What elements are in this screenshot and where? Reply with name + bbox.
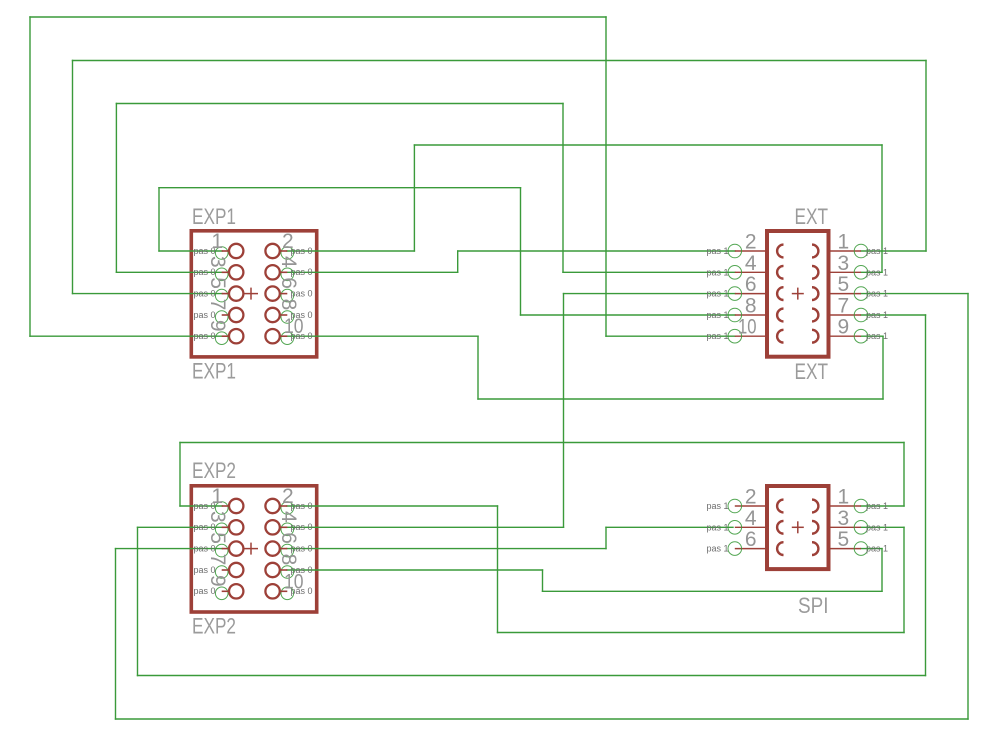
svg-text:EXT: EXT [795, 204, 829, 229]
svg-text:pas 1: pas 1 [706, 289, 728, 299]
svg-text:pas 0: pas 0 [193, 522, 215, 532]
svg-text:8: 8 [277, 299, 300, 311]
svg-text:6: 6 [745, 273, 757, 296]
svg-text:pas 0: pas 0 [291, 246, 313, 256]
svg-text:1: 1 [211, 485, 223, 508]
svg-text:pas 0: pas 0 [291, 501, 313, 511]
svg-text:2: 2 [745, 231, 757, 254]
svg-text:5: 5 [206, 532, 229, 544]
svg-text:pas 1: pas 1 [706, 310, 728, 320]
svg-text:4: 4 [277, 511, 300, 523]
svg-text:pas 1: pas 1 [706, 267, 728, 277]
svg-text:2: 2 [282, 230, 294, 253]
svg-text:9: 9 [206, 575, 229, 587]
svg-text:pas 0: pas 0 [193, 267, 215, 277]
svg-text:pas 1: pas 1 [866, 289, 888, 299]
svg-text:7: 7 [838, 295, 850, 318]
svg-text:pas 0: pas 0 [291, 288, 313, 298]
svg-text:pas 1: pas 1 [866, 246, 888, 256]
svg-text:pas 1: pas 1 [706, 501, 728, 511]
svg-text:8: 8 [745, 295, 757, 318]
svg-text:pas 0: pas 0 [193, 565, 215, 575]
svg-text:SPI: SPI [798, 593, 829, 618]
svg-text:5: 5 [838, 273, 850, 296]
svg-text:4: 4 [277, 256, 300, 268]
svg-text:2: 2 [745, 486, 757, 509]
svg-text:5: 5 [206, 277, 229, 289]
svg-text:4: 4 [745, 252, 757, 275]
svg-text:7: 7 [206, 299, 229, 311]
svg-text:6: 6 [277, 532, 300, 544]
svg-text:EXP1: EXP1 [192, 204, 236, 229]
svg-text:pas 0: pas 0 [291, 522, 313, 532]
svg-text:pas 1: pas 1 [866, 267, 888, 277]
svg-text:9: 9 [206, 320, 229, 332]
svg-text:pas 1: pas 1 [866, 331, 888, 341]
svg-text:pas 1: pas 1 [706, 522, 728, 532]
svg-text:pas 0: pas 0 [193, 288, 215, 298]
svg-text:10: 10 [284, 570, 304, 593]
svg-text:EXT: EXT [795, 359, 829, 384]
svg-text:3: 3 [838, 252, 850, 275]
svg-text:EXP2: EXP2 [192, 458, 236, 483]
svg-text:pas 0: pas 0 [291, 267, 313, 277]
svg-text:pas 1: pas 1 [706, 544, 728, 554]
svg-text:2: 2 [282, 485, 294, 508]
svg-text:EXP1: EXP1 [192, 359, 236, 384]
svg-text:1: 1 [838, 486, 850, 509]
svg-text:6: 6 [745, 528, 757, 551]
svg-text:9: 9 [838, 316, 850, 339]
svg-text:pas 1: pas 1 [706, 331, 728, 341]
svg-text:3: 3 [206, 256, 229, 268]
svg-text:pas 0: pas 0 [193, 543, 215, 553]
svg-text:7: 7 [206, 554, 229, 566]
svg-text:pas 1: pas 1 [866, 310, 888, 320]
svg-text:10: 10 [738, 316, 757, 339]
svg-text:pas 1: pas 1 [866, 544, 888, 554]
svg-text:1: 1 [211, 230, 223, 253]
svg-text:pas 1: pas 1 [706, 246, 728, 256]
svg-text:pas 1: pas 1 [866, 501, 888, 511]
svg-text:pas 0: pas 0 [193, 331, 215, 341]
svg-text:1: 1 [838, 231, 850, 254]
svg-text:pas 0: pas 0 [193, 310, 215, 320]
svg-text:10: 10 [284, 315, 304, 338]
svg-text:6: 6 [277, 277, 300, 289]
svg-text:5: 5 [838, 528, 850, 551]
svg-text:pas 0: pas 0 [291, 543, 313, 553]
svg-text:3: 3 [838, 507, 850, 530]
svg-text:pas 0: pas 0 [193, 586, 215, 596]
svg-text:3: 3 [206, 511, 229, 523]
svg-text:4: 4 [745, 507, 757, 530]
svg-text:pas 1: pas 1 [866, 522, 888, 532]
svg-text:8: 8 [277, 554, 300, 566]
svg-text:EXP2: EXP2 [192, 614, 236, 639]
